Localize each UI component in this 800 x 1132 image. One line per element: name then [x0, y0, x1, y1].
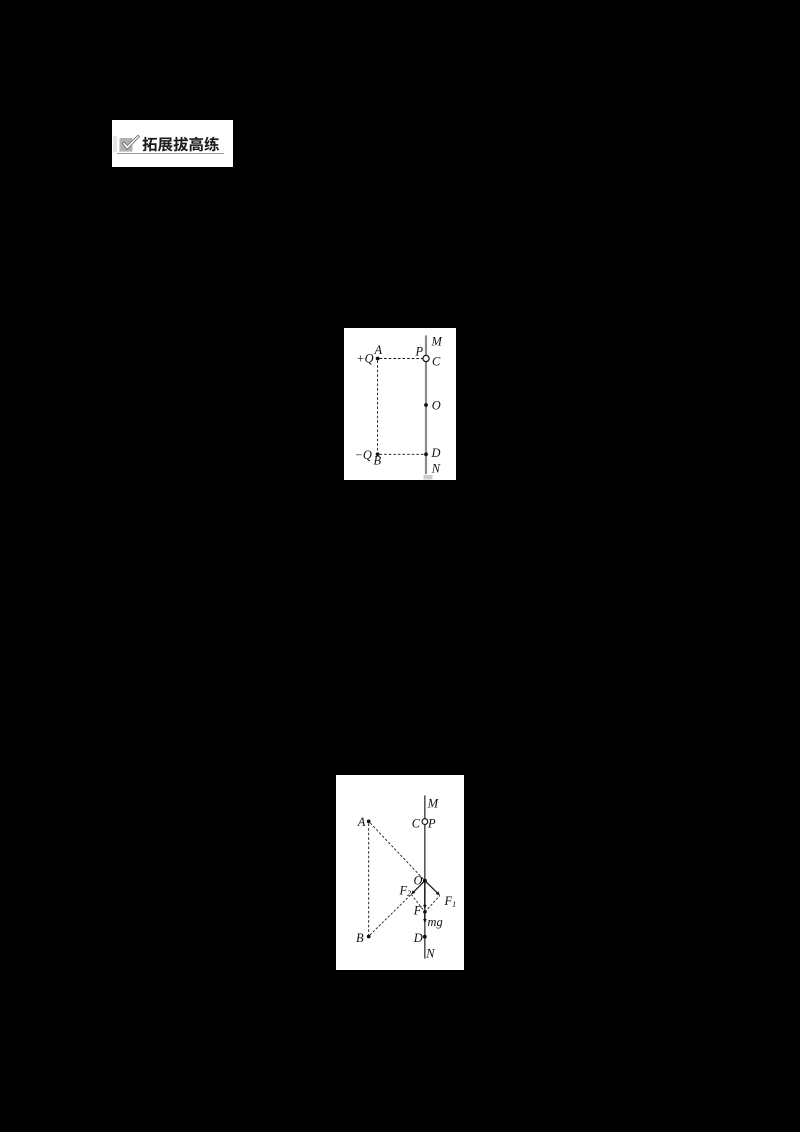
svg-text:C: C: [412, 817, 421, 831]
vector F1 arrow: [425, 881, 438, 894]
svg-text:A: A: [374, 343, 383, 357]
node D dot: [423, 935, 427, 939]
svg-text:D: D: [431, 446, 441, 460]
checkbox with checkmark: [118, 134, 152, 154]
left gray strip: [113, 136, 117, 152]
svg-text:−Q: −Q: [355, 448, 372, 462]
badge title text 拓展拔高练 (vector): [112, 120, 233, 167]
dashed wire B to F2 tip: [370, 894, 411, 935]
dashed wire F2 tip to F: [411, 894, 425, 912]
panel 2: force diagram on rod MN: [336, 775, 464, 970]
svg-text:M: M: [427, 797, 439, 811]
dashed wire A to B: [368, 824, 370, 935]
svg-text:O: O: [432, 398, 441, 412]
ring C/P: [422, 819, 428, 825]
svg-text:N: N: [431, 462, 441, 476]
vector F2 arrow: [413, 881, 425, 893]
node A dot: [376, 357, 380, 361]
node O dot: [424, 403, 428, 407]
svg-text:F: F: [413, 904, 422, 918]
svg-text:N: N: [425, 947, 435, 961]
node B dot: [367, 935, 371, 939]
svg-text:mg: mg: [428, 915, 443, 929]
node D dot: [424, 452, 428, 456]
svg-text:C: C: [432, 355, 441, 369]
ring C (point P): [423, 355, 429, 361]
dashed wire B to D: [380, 453, 425, 455]
vector mg arrow: [424, 914, 426, 919]
svg-text:F2: F2: [399, 883, 412, 898]
panel 1: charges A,B and rod MN: [344, 328, 456, 480]
vector F arrow down: [424, 881, 426, 905]
underline: [117, 153, 224, 154]
svg-text:P: P: [415, 344, 424, 358]
svg-text:B: B: [356, 931, 364, 945]
svg-text:A: A: [357, 815, 366, 829]
node O dot: [423, 879, 427, 883]
dashed wire A to C: [380, 358, 423, 360]
svg-text:P: P: [427, 817, 436, 831]
badge: 拓展拔高练: [112, 120, 233, 167]
dashed wire F to F1 tip: [425, 896, 440, 912]
svg-text:M: M: [431, 335, 443, 349]
svg-text:D: D: [413, 931, 423, 945]
svg-text:F1: F1: [444, 894, 457, 909]
rod MN: [424, 795, 426, 958]
node B dot: [376, 452, 380, 456]
node A dot: [367, 820, 371, 824]
svg-text:B: B: [374, 454, 382, 468]
node F dot: [423, 910, 427, 914]
svg-text:O: O: [414, 873, 423, 887]
svg-text:+Q: +Q: [356, 351, 373, 365]
dashed wire A to O: [370, 823, 424, 880]
rod MN: [425, 335, 427, 474]
dashed wire A to B: [377, 361, 379, 453]
rod end cap: [424, 475, 433, 480]
